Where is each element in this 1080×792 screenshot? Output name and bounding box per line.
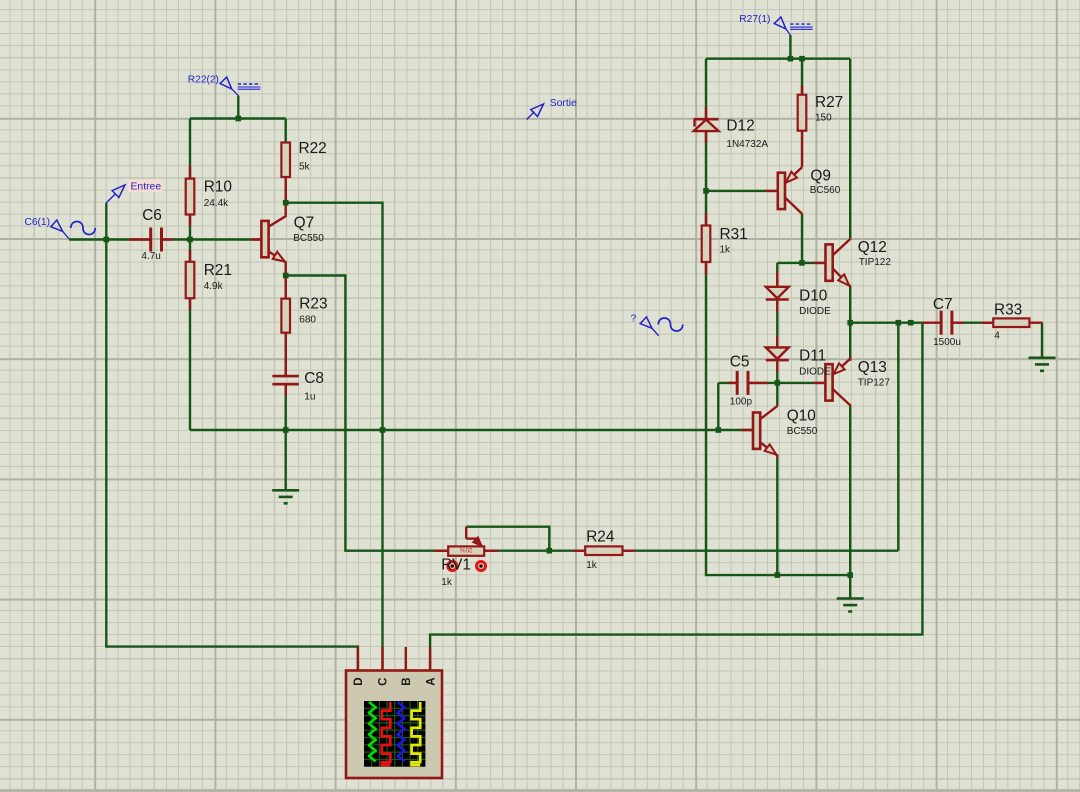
svg-text:RV1: RV1: [441, 557, 471, 574]
svg-text:BC550: BC550: [293, 233, 324, 244]
svg-text:C5: C5: [730, 354, 750, 371]
svg-text:D10: D10: [799, 288, 827, 305]
svg-text:1k: 1k: [441, 577, 453, 588]
svg-text:C7: C7: [933, 296, 953, 313]
svg-text:100p: 100p: [730, 397, 753, 408]
svg-text:C6(1): C6(1): [25, 217, 50, 228]
svg-text:DIODE: DIODE: [799, 367, 831, 378]
svg-text:R33: R33: [994, 302, 1022, 319]
svg-text:Q7: Q7: [294, 214, 315, 231]
svg-text:4: 4: [994, 331, 1000, 342]
svg-text:R24: R24: [586, 529, 615, 546]
svg-text:1N4732A: 1N4732A: [726, 139, 768, 150]
svg-text:1k: 1k: [586, 560, 598, 571]
svg-text:4.9k: 4.9k: [204, 281, 224, 292]
svg-text:BC550: BC550: [787, 426, 818, 437]
svg-text:A: A: [425, 677, 437, 685]
svg-text:R31: R31: [720, 226, 748, 243]
svg-text:Q9: Q9: [810, 168, 831, 185]
svg-text:4.7u: 4.7u: [141, 251, 160, 262]
svg-text:R27: R27: [815, 94, 843, 111]
svg-text:DIODE: DIODE: [799, 306, 831, 317]
svg-text:R10: R10: [204, 179, 232, 196]
svg-text:BC560: BC560: [810, 185, 841, 196]
svg-text:TIP127: TIP127: [858, 377, 891, 388]
svg-text:Entree: Entree: [131, 182, 162, 193]
svg-text:Q10: Q10: [787, 407, 816, 424]
svg-text:D: D: [353, 677, 365, 685]
svg-text:C8: C8: [304, 370, 324, 387]
svg-text:1u: 1u: [304, 392, 315, 403]
svg-text:C6: C6: [142, 207, 162, 224]
svg-text:R21: R21: [204, 262, 232, 279]
svg-text:D12: D12: [726, 118, 754, 135]
svg-text:20%: 20%: [460, 546, 473, 553]
svg-text:TIP122: TIP122: [859, 257, 892, 268]
svg-text:R27(1): R27(1): [739, 14, 770, 25]
svg-text:5k: 5k: [299, 162, 311, 173]
svg-text:C: C: [378, 677, 390, 685]
svg-text:?: ?: [631, 313, 637, 324]
svg-text:Sortie: Sortie: [550, 98, 577, 109]
svg-text:680: 680: [299, 315, 316, 326]
svg-text:150: 150: [815, 113, 832, 124]
svg-text:D11: D11: [799, 348, 826, 365]
svg-text:1500u: 1500u: [933, 337, 961, 348]
svg-text:1k: 1k: [720, 245, 732, 256]
svg-text:24.4k: 24.4k: [204, 198, 229, 209]
svg-text:Q13: Q13: [858, 359, 887, 376]
svg-text:R22: R22: [299, 140, 327, 157]
svg-text:Q12: Q12: [858, 239, 887, 256]
svg-text:R22(2): R22(2): [188, 75, 219, 86]
svg-text:R23: R23: [299, 296, 327, 313]
svg-text:B: B: [401, 677, 413, 685]
